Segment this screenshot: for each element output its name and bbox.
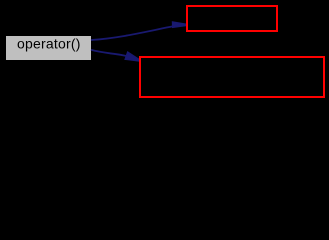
edge to bottom callee (wire) <box>91 50 139 61</box>
edge to top callee (wire) <box>91 22 186 40</box>
node operator() (caller, grey) <box>6 36 91 60</box>
top callee box (red) <box>187 6 277 31</box>
svg-text:operator(): operator() <box>17 36 81 52</box>
bottom callee box (red) <box>140 57 324 97</box>
